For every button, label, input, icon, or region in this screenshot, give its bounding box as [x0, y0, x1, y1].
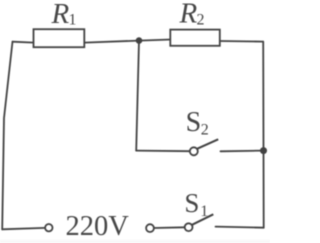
terminal circle right of 220V	[146, 224, 154, 232]
svg-text:2: 2	[197, 12, 205, 29]
svg-text:S: S	[186, 107, 202, 138]
switch S1 blade	[192, 214, 213, 225]
wire right side	[262, 42, 265, 228]
wire S1 to bottom-right corner	[216, 227, 264, 228]
label R2	[179, 0, 205, 29]
wire node A to R2	[139, 40, 171, 41]
wire R2 to top-right corner	[220, 40, 264, 43]
node B junction dot	[260, 147, 267, 154]
wire between 220V right terminal and S1 pivot	[154, 226, 185, 229]
resistor R2	[170, 30, 220, 46]
wire S2 branch right to node B	[221, 150, 264, 153]
wire middle vertical from node A	[136, 41, 139, 151]
label S2	[186, 107, 209, 138]
node A junction dot	[136, 37, 143, 44]
svg-text:2: 2	[201, 122, 209, 139]
switch S1 pivot circle	[185, 223, 193, 231]
svg-text:S: S	[184, 188, 199, 218]
resistor R1	[34, 29, 85, 47]
svg-text:R: R	[51, 0, 70, 30]
svg-text:220V: 220V	[66, 211, 130, 242]
switch S2 blade	[197, 139, 218, 148]
svg-text:1: 1	[69, 12, 77, 29]
svg-text:R: R	[179, 0, 198, 29]
label R1	[51, 0, 77, 30]
wire S2 branch left	[136, 150, 190, 153]
wire top-left segment	[13, 41, 35, 44]
label S1	[184, 188, 208, 220]
wire bottom-left to 220V terminal	[2, 228, 45, 229]
wire left side	[2, 42, 12, 230]
terminal circle left of 220V	[45, 224, 52, 231]
wire R1 to node A	[85, 41, 140, 43]
svg-text:1: 1	[200, 203, 208, 220]
switch S2 pivot circle	[190, 147, 198, 155]
